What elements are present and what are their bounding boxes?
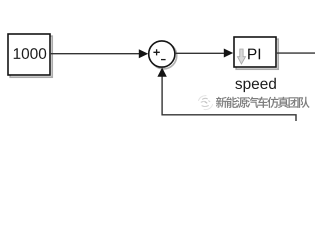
plus sign [153,49,159,55]
wire: sum to PI [175,52,225,54]
PI controller block [234,37,276,67]
wire: constant to sum [51,53,140,55]
constant block 1000 [8,34,50,75]
arrowhead into sum from below [157,68,166,77]
gray input-port arrow icon [238,49,246,64]
minus sign [161,59,166,61]
arrowhead into sum [139,49,148,58]
wire: PI output to right edge [277,52,315,54]
constant block shadow [10,36,52,77]
value label 1000 [14,48,21,59]
sum junction circle [149,41,175,67]
PI block shadow [236,39,278,69]
sum junction shadow [151,43,177,69]
PI label [248,49,256,60]
block name label speed [235,81,242,89]
arrowhead into PI block [224,49,233,58]
feedback wire (bottom) [162,76,296,121]
watermark logo [199,96,213,110]
watermark text 新能源汽车仿真团队 [216,97,310,108]
